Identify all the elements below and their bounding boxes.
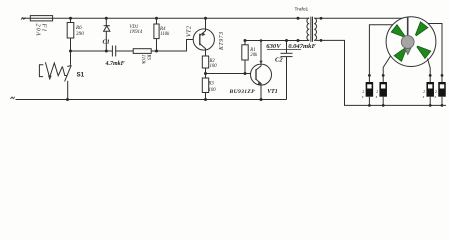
svg-text:390: 390 (76, 31, 84, 37)
svg-text:0.047mkF: 0.047mkF (288, 43, 316, 50)
svg-text:4.7mkF: 4.7mkF (105, 61, 125, 67)
svg-text:Trafo1: Trafo1 (295, 6, 309, 12)
svg-text:100: 100 (209, 88, 217, 93)
svg-text:KT973: KT973 (219, 31, 225, 51)
svg-text:1N914: 1N914 (130, 30, 143, 35)
svg-text:R5: R5 (146, 54, 151, 61)
svg-text:100: 100 (210, 64, 218, 69)
svg-text:C2: C2 (275, 56, 283, 63)
svg-text:R3: R3 (208, 82, 215, 87)
svg-text:2: 2 (376, 90, 378, 94)
svg-text:110k: 110k (160, 32, 170, 37)
svg-text:630V: 630V (266, 43, 281, 50)
svg-text:VT1: VT1 (267, 89, 277, 95)
svg-text:2: 2 (362, 90, 364, 94)
svg-text:S1: S1 (77, 72, 85, 79)
svg-text:BU931ZP: BU931ZP (229, 89, 256, 95)
svg-text:VT2: VT2 (187, 25, 193, 37)
svg-text:2: 2 (423, 90, 425, 94)
svg-text:20k: 20k (250, 53, 258, 58)
svg-text:C1: C1 (103, 39, 110, 46)
svg-text:2: 2 (435, 90, 437, 94)
svg-text:110k: 110k (140, 55, 145, 65)
svg-text:20A: 20A (34, 24, 41, 37)
